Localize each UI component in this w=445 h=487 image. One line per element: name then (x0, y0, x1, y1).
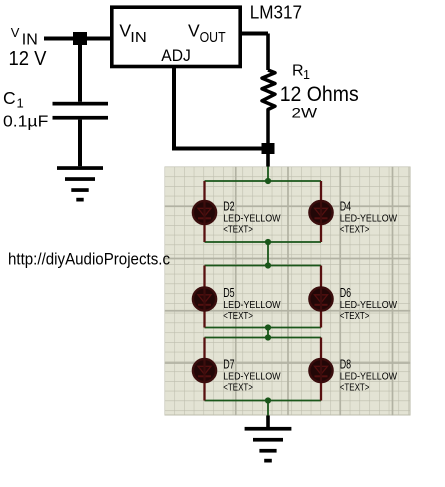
svg-text:1: 1 (303, 68, 310, 82)
svg-text:<TEXT>: <TEXT> (223, 311, 253, 322)
svg-text:IN: IN (22, 32, 38, 49)
svg-text:0.1µF: 0.1µF (3, 114, 49, 131)
svg-text:LM317: LM317 (250, 2, 302, 22)
svg-text:V: V (11, 25, 20, 40)
svg-text:D8: D8 (340, 357, 351, 372)
svg-text:<TEXT>: <TEXT> (340, 311, 370, 322)
svg-text:V: V (188, 21, 200, 41)
svg-text:C: C (3, 88, 16, 108)
svg-text:R: R (292, 63, 304, 80)
svg-text:IN: IN (130, 30, 147, 46)
svg-text:<TEXT>: <TEXT> (340, 383, 370, 394)
svg-text:LED-YELLOW: LED-YELLOW (340, 372, 398, 383)
svg-text:http://diyAudioProjects.c: http://diyAudioProjects.c (8, 251, 170, 269)
svg-text:12 Ohms: 12 Ohms (280, 83, 359, 106)
svg-text:<TEXT>: <TEXT> (223, 383, 253, 394)
svg-text:D6: D6 (340, 285, 351, 300)
svg-text:LED-YELLOW: LED-YELLOW (223, 300, 281, 311)
svg-text:<TEXT>: <TEXT> (340, 225, 370, 236)
svg-text:2W: 2W (292, 105, 318, 121)
svg-text:D5: D5 (223, 285, 234, 300)
svg-text:OUT: OUT (200, 30, 226, 46)
svg-text:ADJ: ADJ (161, 46, 191, 65)
svg-text:LED-YELLOW: LED-YELLOW (340, 300, 398, 311)
svg-text:D4: D4 (340, 199, 351, 214)
svg-text:<TEXT>: <TEXT> (223, 225, 253, 236)
svg-text:1: 1 (17, 96, 24, 111)
svg-text:D7: D7 (223, 357, 234, 372)
svg-text:LED-YELLOW: LED-YELLOW (223, 372, 281, 383)
svg-text:LED-YELLOW: LED-YELLOW (223, 214, 281, 225)
svg-text:LED-YELLOW: LED-YELLOW (340, 214, 398, 225)
svg-text:D2: D2 (223, 199, 234, 214)
svg-text:12 V: 12 V (9, 47, 47, 70)
